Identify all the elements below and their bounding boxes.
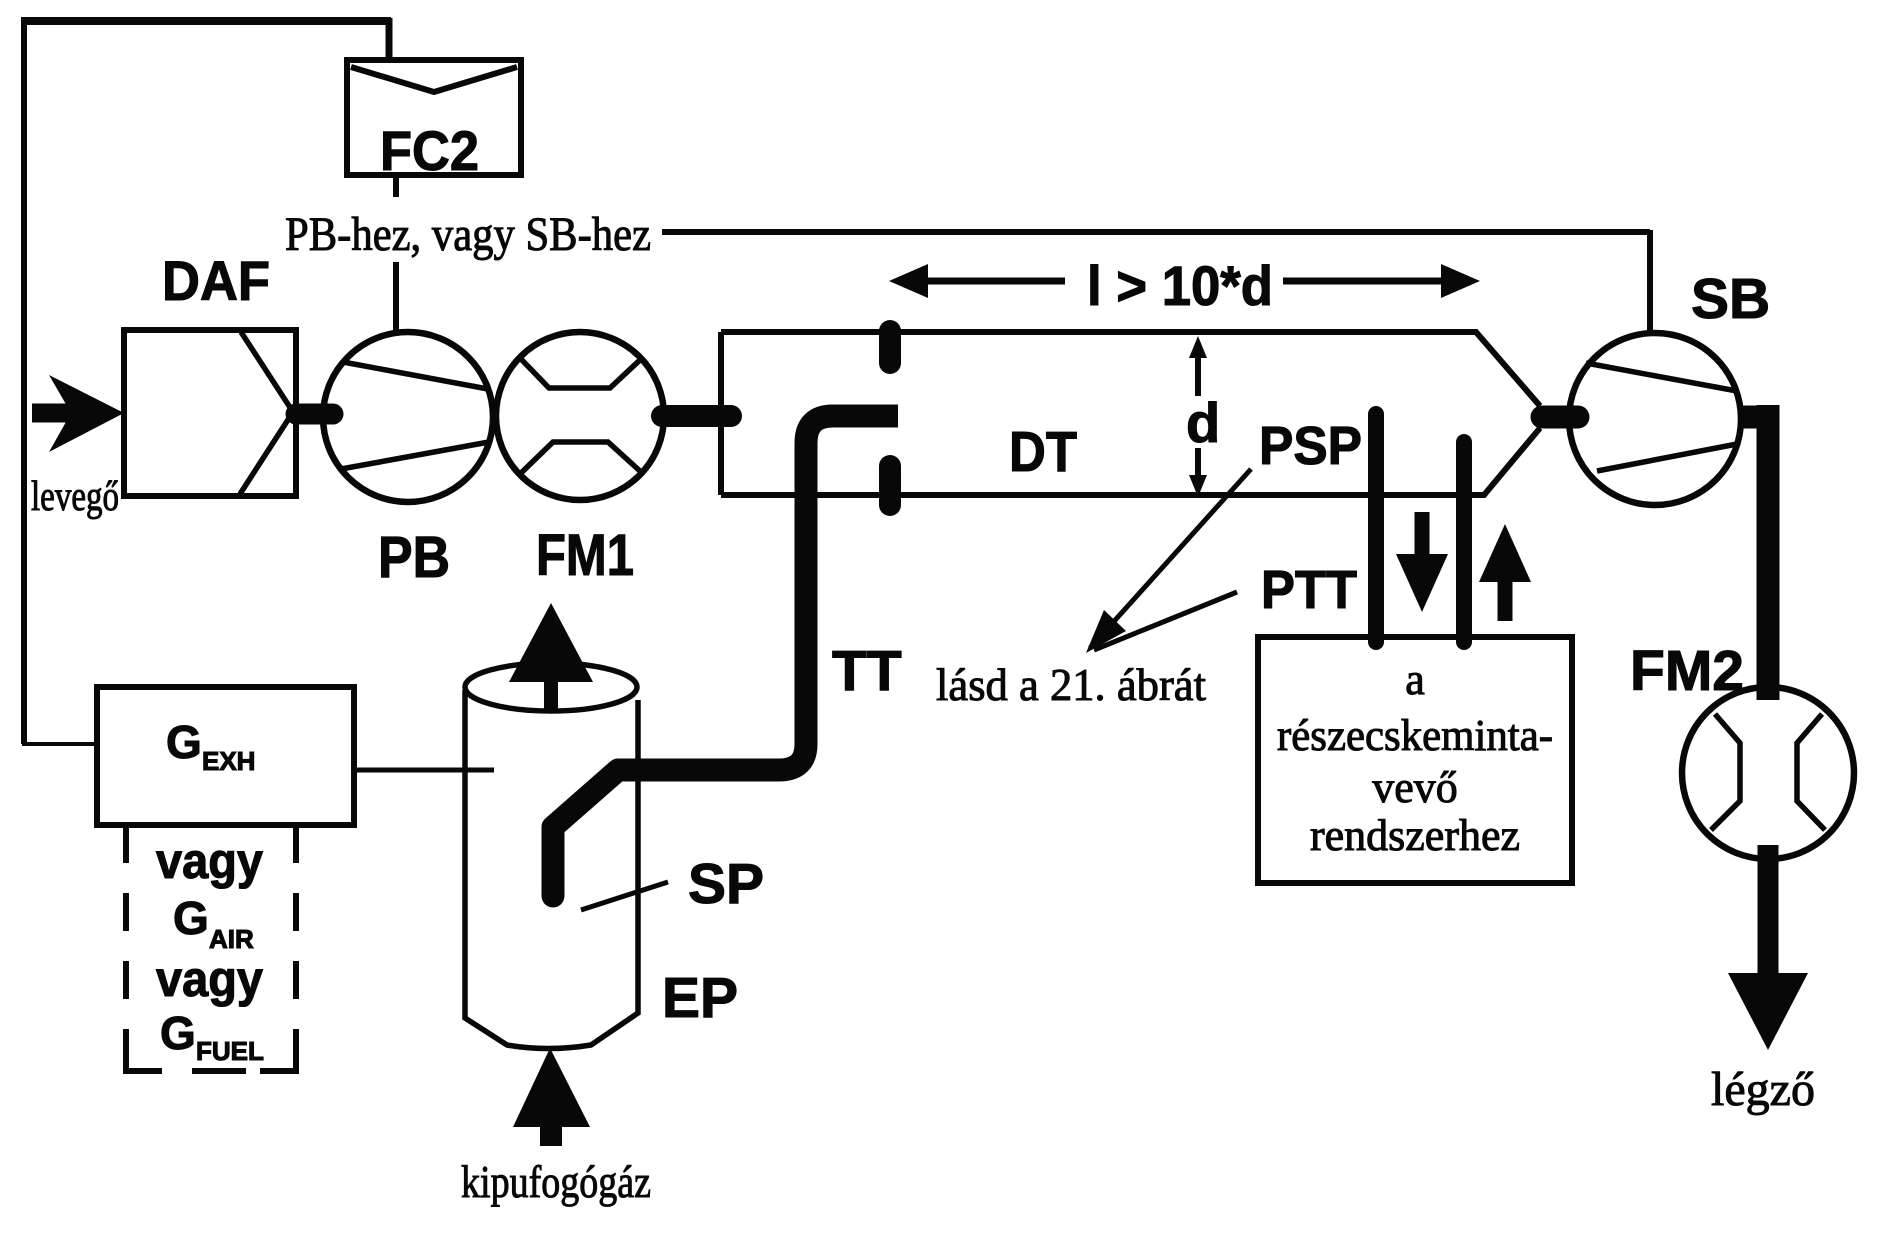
PB internal vanes (341, 362, 489, 469)
svg-text:EXH: EXH (202, 746, 255, 776)
duct top port stub (879, 331, 901, 363)
inlet air arrow (32, 404, 72, 423)
svg-text:vagy: vagy (156, 951, 263, 1007)
FM2 internal venturi (1711, 714, 1825, 830)
up arrow (1498, 578, 1513, 621)
svg-text:G: G (160, 1007, 196, 1059)
FM1 internal venturi (520, 358, 641, 474)
svg-text:PB-hez, vagy SB-hez: PB-hez, vagy SB-hez (285, 208, 651, 261)
wire stub below FC2 (393, 175, 399, 197)
wire left vertical riser (21, 18, 27, 744)
particle transfer box (1258, 637, 1572, 883)
svg-text:SP: SP (688, 852, 764, 916)
wire from label down to PB top (393, 262, 399, 332)
svg-text:kipufogógáz: kipufogógáz (461, 1156, 651, 1207)
FC2 envelope flap (351, 67, 517, 92)
duct bottom port stub (879, 466, 901, 505)
svg-text:AIR: AIR (209, 924, 254, 954)
dilution tunnel DT outline (718, 332, 724, 495)
svg-text:vevő: vevő (1372, 763, 1458, 812)
svg-text:G: G (173, 892, 209, 944)
svg-text:d: d (1186, 391, 1220, 454)
svg-text:lásd a 21. ábrát: lásd a 21. ábrát (936, 659, 1206, 710)
svg-text:DT: DT (1009, 420, 1077, 484)
FM2 outlet arrow (1758, 845, 1779, 975)
connector duct to SB (1542, 406, 1578, 429)
flow meter FM2 circle (1682, 687, 1854, 859)
svg-text:PSP: PSP (1259, 416, 1362, 476)
flow meter FM1 circle (496, 332, 664, 500)
svg-text:részecskeminta-: részecskeminta- (1277, 711, 1553, 760)
connector FM1 to duct (662, 405, 731, 427)
flow controller FC2 box (347, 60, 521, 175)
EP top arrow (544, 676, 558, 712)
SB internal vanes (1586, 363, 1737, 471)
svg-text:levegő: levegő (31, 474, 119, 520)
exhaust pipe EP cylinder (465, 663, 637, 711)
particle sampling probe line 2 (1456, 442, 1472, 642)
svg-text:vagy: vagy (156, 833, 263, 889)
sampling blower SB circle (1569, 333, 1741, 505)
DAF internal funnel lines (240, 332, 293, 494)
transfer tube TT thick pipe (553, 416, 898, 895)
wire top horizontal from left riser to FC2 (21, 17, 391, 25)
svg-text:l > 10*d: l > 10*d (1087, 254, 1273, 317)
svg-text:a: a (1405, 655, 1425, 704)
EP bottom inlet arrow (540, 1124, 562, 1146)
svg-text:FUEL: FUEL (196, 1036, 264, 1066)
sampling probe SP leader (581, 882, 668, 910)
svg-text:SB: SB (1691, 267, 1770, 331)
air filter DAF box (124, 330, 296, 496)
svg-text:PB: PB (378, 525, 450, 590)
svg-text:PTT: PTT (1261, 560, 1357, 620)
leader arrow to probes (1090, 469, 1251, 650)
dimension l > 10*d (905, 278, 1065, 285)
svg-text:EP: EP (662, 966, 738, 1030)
particle sampling probe line 1 (1368, 414, 1384, 642)
svg-text:FM2: FM2 (1630, 639, 1744, 703)
wire into GEXH left (22, 742, 99, 746)
svg-text:légző: légző (1711, 1063, 1815, 1116)
dashed alternatives box (126, 825, 296, 1047)
blower PB circle (323, 332, 493, 502)
connector SB to FM2 drop (1738, 406, 1779, 429)
svg-text:rendszerhez: rendszerhez (1310, 811, 1520, 860)
svg-text:FC2: FC2 (380, 119, 479, 182)
svg-text:DAF: DAF (162, 249, 270, 312)
wire from label to SB riser (662, 229, 1650, 235)
down arrow (1415, 512, 1430, 560)
connector DAF to PB (296, 404, 333, 425)
svg-text:TT: TT (832, 639, 902, 703)
engine GEXH box (97, 687, 354, 825)
dimension d vertical (1195, 348, 1201, 396)
svg-text:FM1: FM1 (536, 523, 634, 588)
wire drop into FC2 top (386, 18, 393, 62)
wire GEXH to EP (354, 768, 494, 773)
wire riser down to SB top (1647, 230, 1653, 336)
svg-text:G: G (166, 716, 202, 768)
